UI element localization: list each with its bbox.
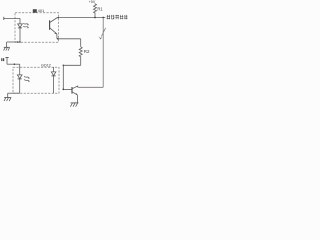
resistor R2 bbox=[79, 47, 82, 66]
right vertical wire bbox=[102, 18, 104, 88]
top rail bbox=[57, 17, 105, 19]
input B label bbox=[1, 58, 2, 61]
LED D1 bbox=[18, 24, 23, 28]
ground G3 bbox=[71, 102, 79, 104]
svg-text:R2: R2 bbox=[84, 49, 90, 54]
junction dot rail-right bbox=[102, 17, 104, 19]
collector rail bbox=[78, 86, 104, 88]
light arrows U2 bbox=[24, 76, 29, 78]
net label right bbox=[107, 15, 128, 19]
VD bottom lead bbox=[53, 76, 55, 93]
wire Q1 emitter to R2 bbox=[57, 38, 81, 40]
wire input A bbox=[4, 17, 20, 19]
ground G2 bbox=[4, 97, 11, 99]
svg-text:R1: R1 bbox=[97, 7, 103, 12]
junction dot R1-rail bbox=[94, 17, 96, 19]
terminal B bbox=[5, 56, 8, 58]
photodiode VD bbox=[51, 72, 56, 76]
base feed vertical bbox=[62, 65, 64, 89]
svg-text:GD12: GD12 bbox=[41, 64, 51, 68]
U1 label bbox=[33, 9, 37, 13]
LED D2 bbox=[17, 75, 22, 79]
R2 top lead bbox=[80, 39, 82, 47]
wire LED1 cathode to ground bbox=[7, 41, 20, 43]
annotation arrow bbox=[101, 28, 105, 37]
VT emitter lead down bbox=[76, 95, 78, 103]
phototransistor Q1 bar bbox=[49, 20, 51, 30]
optocoupler U1 dashed box bbox=[15, 13, 59, 43]
LED D1 anode lead bbox=[19, 18, 21, 24]
LED D2 cathode lead bbox=[19, 79, 21, 93]
Q1 collector bbox=[50, 18, 58, 23]
wire R2 bottom to node B bbox=[63, 64, 80, 66]
wire input B bbox=[7, 63, 20, 65]
junction dot input B bbox=[14, 63, 16, 65]
ground G1 stem bbox=[6, 42, 8, 47]
ground G2 stem bbox=[7, 93, 9, 97]
junction dot emitter-box edge bbox=[57, 38, 59, 40]
junction dot base corner bbox=[62, 89, 64, 91]
terminal A tick bbox=[3, 17, 5, 20]
junction dot rail-box bbox=[57, 17, 59, 19]
junction dot bbox=[17, 41, 19, 43]
junction dot node B bbox=[63, 65, 65, 67]
resistor R1 bbox=[94, 3, 97, 17]
optocoupler U2 dashed box bbox=[13, 67, 59, 93]
svg-text:401: 401 bbox=[38, 8, 45, 13]
light arrows U1 bbox=[23, 23, 28, 24]
LED D1 cathode lead bbox=[19, 28, 21, 42]
svg-text:+5V: +5V bbox=[89, 0, 96, 4]
VT collector bbox=[72, 86, 78, 89]
transistor VT bar bbox=[71, 87, 73, 94]
wire base feed to VT base bbox=[63, 88, 72, 90]
Q1 emitter bbox=[50, 28, 57, 34]
wire LED2 cathode to ground bbox=[8, 92, 20, 94]
ground G1 bbox=[4, 46, 10, 48]
photodiode VD top lead bbox=[53, 67, 55, 72]
VT emitter bbox=[72, 92, 77, 95]
LED D2 anode lead bbox=[19, 64, 21, 75]
Q1 emitter lead down bbox=[56, 34, 58, 39]
